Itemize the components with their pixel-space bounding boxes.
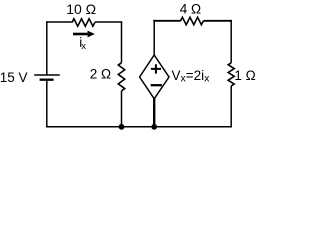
resistor R1 10 ohm zigzag — [72, 19, 95, 26]
minus sign inside source — [151, 84, 162, 86]
plus sign inside source — [151, 64, 161, 73]
voltage source V1 15V short plate — [40, 79, 54, 81]
svg-text:4 Ω: 4 Ω — [180, 1, 201, 16]
svg-text:2 Ω: 2 Ω — [90, 66, 111, 81]
wire dependent-source vertical upper — [153, 20, 155, 55]
wire middle vertical lower — [121, 91, 123, 127]
wire left vertical lower — [46, 80, 48, 128]
current arrow ix — [73, 33, 88, 36]
wire middle vertical upper — [121, 21, 123, 62]
junction node dot left — [119, 124, 125, 130]
svg-text:15 V: 15 V — [0, 70, 27, 85]
wire bottom horizontal — [46, 126, 232, 128]
svg-text:1 Ω: 1 Ω — [234, 68, 255, 83]
junction node dot right — [151, 124, 157, 130]
wire top-left horizontal (left segment) — [46, 21, 72, 23]
wire left vertical upper — [46, 21, 48, 75]
resistor R2 2 ohm zigzag — [118, 63, 124, 91]
wire top-right horizontal (left segment) — [153, 20, 180, 22]
wire dependent-source stem lower — [153, 99, 155, 127]
wire right vertical lower — [230, 86, 232, 128]
dependent source U1 diamond — [140, 55, 169, 99]
wire right vertical upper — [230, 20, 232, 63]
wire top-left horizontal (right segment) — [95, 21, 122, 23]
wire top-right horizontal (right segment) — [203, 20, 232, 22]
svg-text:10 Ω: 10 Ω — [66, 1, 96, 17]
resistor R3 4 ohm zigzag — [181, 17, 204, 24]
resistor R4 1 ohm zigzag — [228, 63, 234, 86]
voltage source V1 15V long plate — [34, 74, 60, 76]
